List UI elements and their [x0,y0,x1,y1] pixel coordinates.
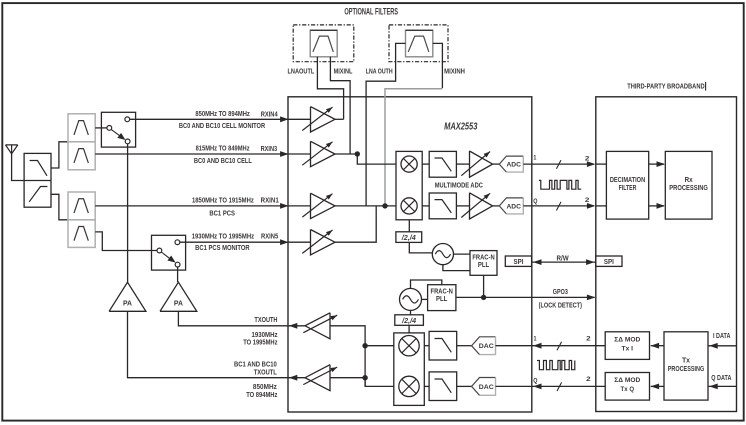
svg-text:Q: Q [533,377,537,384]
svg-text:815MHz TO 849MHz: 815MHz TO 849MHz [196,144,250,153]
wire decim to rxproc I [649,163,664,165]
wire VGA4 output [287,377,305,379]
mixer M3 tx I [399,336,419,356]
wire VGA2 to ADC2 [493,205,500,207]
PLL2 FRAC-N box [428,285,456,311]
mixer M2 Q [401,198,417,214]
wire mixer M1 to LPF1 [422,163,429,165]
wire RXIN3 line [95,153,287,155]
optional filter F1 body [310,30,337,57]
filter LPF1 box [429,151,456,177]
switch S1 box [101,112,135,147]
filter FL2 cell bandpass [68,142,95,170]
DAC1 converter [472,337,496,355]
svg-text:ADC: ADC [506,162,521,169]
wire node to mixer M3 [365,345,394,347]
amplifier LNA3 RXIN1 [311,193,336,218]
switch S1 top throw contact [125,117,130,122]
oscillator OSC1 rx [432,244,453,265]
amplifier VGA3 TXOUTH [305,313,330,339]
svg-text:Q: Q [533,198,537,205]
Tx processing box [664,332,708,400]
svg-text:Q DATA: Q DATA [711,373,732,382]
wire FL4 to switch S2 [95,232,157,251]
svg-text:DAC: DAC [479,384,494,391]
sigma-delta mod TxQ box [605,373,649,401]
svg-text:PLL: PLL [478,260,490,269]
wire DAC2 input line [496,385,532,387]
amplifier LNA1 RXIN4 [311,107,336,132]
divider /2,/4 TX box [395,315,424,326]
switch S2 box [152,235,186,270]
wire RXIN5 line [180,241,288,243]
svg-text:R/W: R/W [557,253,569,262]
switch S1 pole contact [107,126,112,131]
svg-text:MAX2553: MAX2553 [444,121,477,133]
svg-text:ΣΔ MOD: ΣΔ MOD [614,336,640,343]
wire I DATA [708,345,737,347]
wire PLL1 to GPO3 node [483,275,485,297]
svg-text:/2,/4: /2,/4 [401,316,416,325]
DAC2 converter [472,378,496,396]
IC U1 MAX2553 box [288,97,532,412]
wire diplexer to cell filters [51,142,68,168]
amplifier LNA2 RXIN3 [311,141,336,166]
bus slash tx Q [557,382,562,391]
SPI port box MAX2553 [505,256,531,266]
wire LNA2 input [288,153,311,155]
wire txproc to sd mod I [651,345,664,347]
node tx sum I [362,343,367,348]
wire Q DATA [708,385,737,387]
switch S1 arm [111,129,121,136]
SPI port box broadband [596,256,622,266]
wire LNA2 output [335,153,357,155]
wire diplexer to pcs filters [51,194,68,220]
optional filter F1 dashed box [293,25,354,62]
switch S2 arm [161,252,171,259]
wire LNA3 output to mixer M2 [335,205,396,207]
svg-text:I DATA: I DATA [713,331,731,340]
svg-text:BC1 PCS: BC1 PCS [209,208,235,217]
ADC2 converter [499,198,523,214]
wire LPF3 to DAC1 [457,345,472,347]
wire R/W bus [532,261,596,263]
wire OSC2 to PLL2 [422,298,428,300]
svg-text:SPI: SPI [514,257,524,266]
amplifier PA1 [109,282,146,311]
wire VGA1 to ADC1 [493,163,500,165]
svg-text:2: 2 [585,156,590,163]
wire MIXINH black segment [433,43,443,88]
svg-text:1: 1 [533,155,536,162]
bus slash Q rx [556,202,561,211]
svg-text:MIXINL: MIXINL [334,67,353,76]
wire ADC2 out Q bus [523,205,594,207]
node MIXINH junction [382,203,387,208]
filter FL4 pcs monitor bandpass [68,220,95,248]
svg-text:Tx Q: Tx Q [621,386,635,393]
bus slash tx I [557,342,562,351]
wire antenna to diplexer [12,154,25,181]
wire FL1 to switch S1 [95,127,107,129]
diplexer divider [24,180,51,182]
wire LNA3 input [288,205,311,207]
svg-text:1850MHz TO 1915MHz: 1850MHz TO 1915MHz [192,195,254,204]
svg-text:PA: PA [174,299,184,308]
oscillator OSC2 tx [400,288,422,310]
wire tx node vertical [364,346,366,387]
amplifier PA2 [160,282,197,311]
wire MIXINL [330,57,350,154]
antenna [6,145,18,154]
wire OSC2 feedback [411,280,442,288]
svg-text:TO 894MHz: TO 894MHz [246,390,277,399]
amplifier VGA2 rx [470,193,493,219]
svg-text:BC0 AND BC10 CELL MONITOR: BC0 AND BC10 CELL MONITOR [179,121,266,130]
svg-text:TXOUTH: TXOUTH [254,315,277,324]
svg-text:OPTIONAL FILTERS: OPTIONAL FILTERS [344,7,398,17]
svg-text:BC0 AND BC10 CELL: BC0 AND BC10 CELL [194,156,253,165]
filter FL1 cell monitor bandpass [68,114,95,142]
svg-text:LNAOUTL: LNAOUTL [288,67,315,76]
filter FL3 pcs bandpass [68,192,95,220]
svg-text:GPO3: GPO3 [553,287,568,296]
amplifier VGA4 TXOUTL [305,365,330,391]
wire LNA1 output [335,118,344,120]
amplifier LNA4 RXIN5 [311,230,336,255]
wire ADC1 out I bus [523,163,594,165]
decimation filter box [606,151,648,219]
svg-text:RXIN3: RXIN3 [261,144,278,153]
svg-text:LNA OUTH: LNA OUTH [366,67,393,76]
filter LPF4 box [429,372,457,401]
wire LNA4 output [335,206,376,242]
tx digital waveform [537,361,575,370]
wire OSC1 to PLL1 [454,253,471,255]
node LNA2 MIXINL junction [355,151,360,156]
ADC1 converter [499,156,523,172]
svg-text:Tx I: Tx I [622,346,634,353]
wire MIXINH gray segment [385,89,442,206]
wire OSC1 feedback [443,265,470,271]
svg-text:TO 1995MHz: TO 1995MHz [243,338,278,347]
sigma-delta mod TxI box [605,332,649,360]
wire mixer M3 to LPF3 [424,345,429,347]
Rx processing box [665,151,712,219]
svg-text:MIXINH: MIXINH [444,67,465,76]
diplexer highpass symbol [29,187,47,202]
third-party broadband box [596,97,737,412]
wire LPF1 to VGA1 [456,163,469,165]
node PLL1 GPO3 junction [481,295,486,300]
wire VGA3 output [287,325,305,327]
svg-text:TXOUTL: TXOUTL [254,368,277,377]
optional filter F2 dashed box [389,25,448,62]
wire divider RX to oscillator [409,242,432,253]
wire RXIN1 line [95,205,287,207]
wire LPF4 to DAC2 [457,385,472,387]
wire OSC2 to divider TX [410,310,412,314]
wire txproc to sd mod Q [651,385,664,387]
diplexer lowpass symbol [30,161,47,176]
wire RXIN4 line [130,118,288,120]
switch S2 top throw contact [175,240,180,245]
svg-text:PROCESSING: PROCESSING [668,364,705,373]
wire VGA3 input to node [330,326,365,346]
switch S1 bottom throw contact [125,139,130,144]
wire decim to rxproc Q [649,205,664,207]
wire DAC1 input line [496,345,532,347]
wire tx Q bus [532,385,605,387]
svg-text:1: 1 [534,336,537,343]
wire switch S1 to PA1 [127,144,129,282]
wire cell node to mixer M1 [357,154,396,164]
svg-text:PA: PA [123,299,133,308]
wire mixer M2 to LPF2 [422,205,429,207]
wire LNAOUTH [366,43,405,206]
filter LPF2 box [429,193,456,219]
wire VGA4 input [330,377,365,379]
node tx sum Q [362,375,367,380]
wire TXOUTL line [128,311,288,377]
mixer M1 I [401,156,417,172]
wire LNAOUTL [317,57,343,120]
svg-text:/2,/4: /2,/4 [401,233,416,242]
wire LNA1 input [288,118,311,120]
wire LPF2 to VGA2 [456,205,469,207]
RX mixer block box [396,151,422,219]
svg-text:PLL: PLL [436,294,448,303]
svg-text:850MHz TO 894MHz: 850MHz TO 894MHz [195,109,250,118]
svg-text:THIRD-PARTY BROADBAND: THIRD-PARTY BROADBAND [627,82,704,91]
svg-text:RXIN4: RXIN4 [261,109,279,118]
wire mixer M4 to LPF4 [424,385,429,387]
wire GPO3 line [456,296,595,298]
filter LPF3 box [429,331,457,360]
wire TXOUTH line [178,311,287,326]
mixer M4 tx Q [399,376,419,396]
svg-text:1930MHz TO 1995MHz: 1930MHz TO 1995MHz [192,232,255,241]
svg-text:2: 2 [586,335,591,342]
wire divider TX to mixer block [408,325,410,333]
rx digital waveform [539,180,581,189]
svg-text:2: 2 [586,376,591,383]
svg-text:RXIN5: RXIN5 [261,232,278,241]
svg-text:MULTIMODE ADC: MULTIMODE ADC [435,181,484,190]
svg-text:ADC: ADC [506,203,521,210]
switch S2 pole contact [157,248,162,253]
optional filter F2 body [406,30,433,57]
svg-text:FILTER: FILTER [619,183,637,192]
wire mixer block to divider [408,220,410,232]
wire node to mixer M4 [365,378,394,387]
bus slash I rx [556,160,561,169]
wire tx I bus [532,345,605,347]
wire switch S2 to PA2 [177,267,179,282]
divider /2,/4 RX box [396,232,422,243]
svg-text:DAC: DAC [479,343,494,350]
amplifier VGA1 rx [470,151,493,177]
PLL1 FRAC-N box [470,251,497,276]
diplexer box [24,153,51,207]
svg-text:SPI: SPI [604,257,614,266]
svg-text:(LOCK DETECT): (LOCK DETECT) [539,301,583,310]
svg-text:RXIN1: RXIN1 [261,196,279,205]
svg-text:ΣΔ MOD: ΣΔ MOD [614,377,640,384]
svg-text:BC1 PCS MONITOR: BC1 PCS MONITOR [195,243,250,252]
switch S2 bottom throw contact [175,262,180,267]
text cursor artifact [705,82,707,91]
svg-text:2: 2 [585,197,590,204]
TX mixer block box [394,333,425,406]
wire LNA4 input [288,241,311,243]
svg-text:PROCESSING: PROCESSING [669,183,708,192]
